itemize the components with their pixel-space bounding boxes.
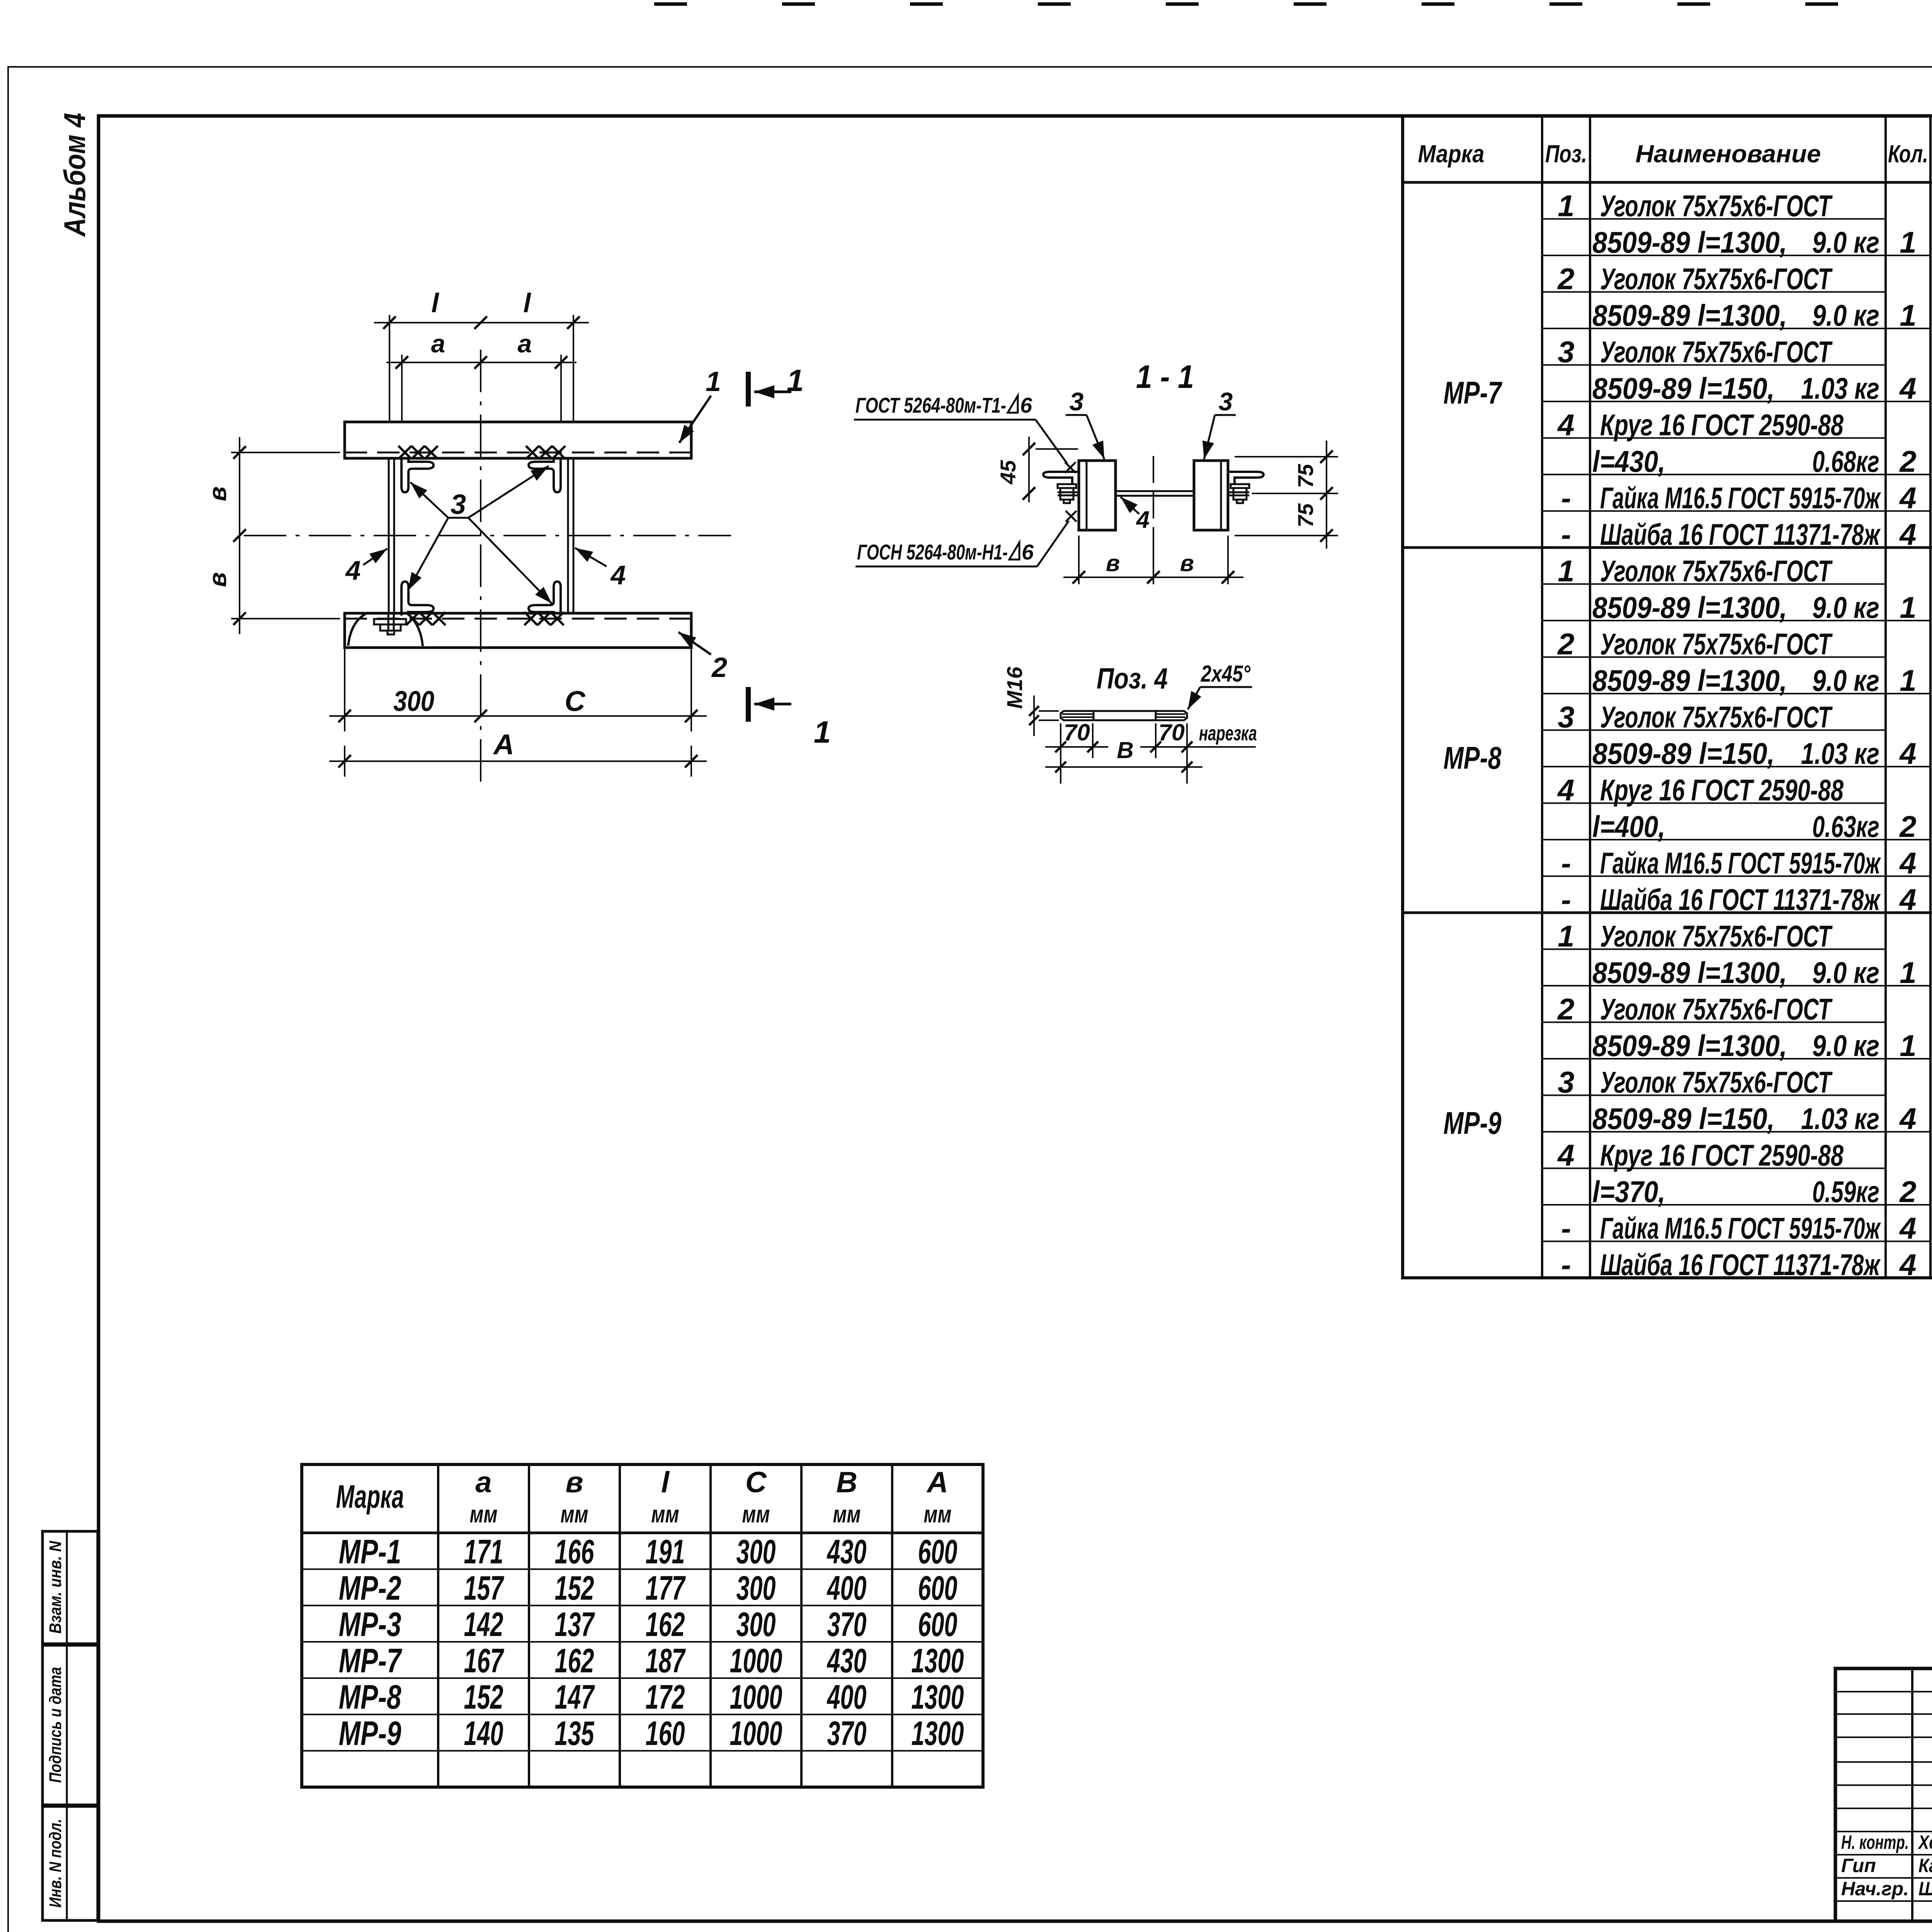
svg-text:Хействер: Хействер: [1918, 1832, 1932, 1853]
svg-text:600: 600: [918, 1532, 957, 1571]
svg-text:Уголок 75х75х6-ГОСТ: Уголок 75х75х6-ГОСТ: [1600, 1065, 1833, 1099]
svg-text:мм: мм: [651, 1501, 679, 1528]
svg-text:4: 4: [1557, 408, 1574, 442]
svg-text:167: 167: [464, 1641, 505, 1680]
section: left nut and washer: [1058, 484, 1076, 488]
svg-text:0.63кг: 0.63кг: [1812, 810, 1879, 844]
svg-text:6: 6: [1022, 540, 1034, 564]
svg-text:в: в: [566, 1466, 583, 1499]
svg-text:Инв. N подл.: Инв. N подл.: [46, 1819, 65, 1908]
svg-text:А: А: [926, 1466, 948, 1499]
svg-text:мм: мм: [470, 1501, 498, 1528]
svg-text:Круг 16 ГОСТ 2590-88: Круг 16 ГОСТ 2590-88: [1600, 773, 1844, 807]
svg-text:нарезка: нарезка: [1199, 722, 1257, 745]
svg-text:в: в: [1106, 550, 1120, 576]
dimension l (left half, top): [389, 315, 390, 422]
svg-text:Гип: Гип: [1841, 1855, 1876, 1876]
main view: weld marks bottom-left: [406, 612, 419, 625]
margin box: Подпись и дата: [43, 1645, 98, 1805]
svg-text:1000: 1000: [730, 1714, 782, 1752]
svg-text:166: 166: [555, 1532, 595, 1571]
svg-text:мм: мм: [833, 1501, 861, 1528]
svg-text:3: 3: [1558, 335, 1574, 369]
svg-text:8509-89 l=1300,: 8509-89 l=1300,: [1592, 663, 1787, 697]
svg-text:Наименование: Наименование: [1636, 140, 1821, 168]
spec table left: block МР-8: [1403, 546, 1932, 549]
svg-text:8509-89 l=1300,: 8509-89 l=1300,: [1592, 1029, 1787, 1063]
spec table left: header: [1541, 116, 1543, 1278]
svg-text:3: 3: [1219, 387, 1233, 416]
svg-text:МР-2: МР-2: [339, 1569, 401, 1607]
svg-text:l: l: [661, 1466, 670, 1499]
svg-text:3: 3: [1070, 387, 1084, 416]
svg-text:МР-3: МР-3: [339, 1605, 401, 1643]
section: centreline: [1153, 456, 1154, 538]
svg-text:Нач.гр.: Нач.гр.: [1841, 1878, 1909, 1900]
main view: weld marks top-left: [398, 446, 412, 459]
svg-text:430: 430: [827, 1532, 866, 1571]
svg-text:1.03 кг: 1.03 кг: [1801, 736, 1879, 770]
svg-text:4: 4: [1899, 481, 1916, 515]
main view: left rod (item 4): [388, 458, 390, 613]
svg-text:Уголок 75х75х6-ГОСТ: Уголок 75х75х6-ГОСТ: [1600, 919, 1833, 953]
svg-text:C: C: [565, 685, 586, 717]
svg-text:1 - 1: 1 - 1: [1136, 359, 1194, 395]
svg-text:1: 1: [814, 715, 831, 749]
svg-text:9.0 кг: 9.0 кг: [1812, 225, 1879, 259]
detail dimension M16: [1039, 710, 1059, 712]
svg-text:4: 4: [1899, 371, 1916, 405]
svg-text:1: 1: [1558, 189, 1574, 223]
svg-text:2: 2: [1899, 1175, 1916, 1209]
section mark 1-1 (top): [746, 372, 751, 406]
main view: angle clip item 3 (top right): [529, 458, 561, 492]
svg-text:Шайба 16 ГОСТ 11371-78ж: Шайба 16 ГОСТ 11371-78ж: [1600, 1248, 1881, 1282]
svg-text:-: -: [1561, 481, 1571, 515]
dimension A (below): [344, 746, 345, 777]
svg-text:2: 2: [1899, 810, 1916, 844]
section dimensions 75 75: [1235, 456, 1338, 457]
svg-text:6: 6: [1020, 393, 1032, 417]
svg-text:1: 1: [1900, 298, 1916, 332]
title block signature grid: [1911, 1668, 1913, 1921]
svg-text:1: 1: [1900, 225, 1916, 259]
main view: vertical centreline: [480, 350, 481, 790]
svg-text:l: l: [523, 288, 531, 318]
svg-text:2: 2: [1557, 627, 1574, 661]
svg-text:Круг 16 ГОСТ 2590-88: Круг 16 ГОСТ 2590-88: [1600, 408, 1844, 442]
svg-text:l=430,: l=430,: [1592, 444, 1665, 478]
svg-text:142: 142: [464, 1605, 503, 1643]
svg-text:1: 1: [706, 366, 721, 397]
svg-text:4: 4: [1899, 736, 1916, 770]
svg-text:1: 1: [787, 363, 804, 398]
svg-text:МР-9: МР-9: [339, 1714, 401, 1752]
svg-text:9.0 кг: 9.0 кг: [1812, 590, 1879, 624]
svg-text:Марка: Марка: [336, 1478, 404, 1515]
svg-text:8509-89 l=1300,: 8509-89 l=1300,: [1592, 956, 1787, 990]
svg-text:МР-9: МР-9: [1444, 1106, 1502, 1141]
main view: bolt assembly on bottom bar: [388, 613, 389, 631]
svg-text:мм: мм: [924, 1501, 952, 1528]
svg-text:a: a: [431, 329, 446, 358]
svg-text:В: В: [1117, 737, 1133, 763]
svg-text:157: 157: [464, 1569, 505, 1607]
svg-text:3: 3: [1558, 700, 1574, 734]
svg-text:Шленова: Шленова: [1918, 1878, 1932, 1900]
svg-text:1: 1: [1900, 590, 1916, 624]
svg-text:МР-8: МР-8: [339, 1678, 401, 1716]
svg-text:Уголок 75х75х6-ГОСТ: Уголок 75х75х6-ГОСТ: [1600, 189, 1833, 223]
svg-text:1: 1: [1558, 919, 1574, 953]
svg-text:C: C: [745, 1466, 767, 1499]
svg-text:Поз. 4: Поз. 4: [1097, 662, 1168, 695]
parameter table: [302, 1464, 983, 1787]
svg-text:600: 600: [918, 1569, 957, 1607]
svg-text:B: B: [836, 1466, 857, 1499]
dimension 300 and C (below): [344, 648, 345, 731]
svg-text:370: 370: [827, 1714, 867, 1752]
main view: right rod (item 4): [567, 458, 569, 613]
svg-text:Уголок 75х75х6-ГОСТ: Уголок 75х75х6-ГОСТ: [1600, 335, 1833, 369]
svg-text:75: 75: [1293, 503, 1318, 527]
svg-text:147: 147: [555, 1678, 595, 1716]
svg-text:75: 75: [1293, 464, 1318, 488]
svg-text:1: 1: [1558, 554, 1574, 588]
svg-text:600: 600: [918, 1605, 957, 1643]
svg-text:1300: 1300: [912, 1678, 964, 1716]
svg-text:l=370,: l=370,: [1592, 1175, 1665, 1209]
main view: bottom bar weld gauge dashed line: [345, 618, 691, 620]
svg-text:3: 3: [451, 489, 466, 520]
svg-text:в: в: [204, 572, 231, 587]
section: right clip block (item 3): [1194, 461, 1228, 530]
svg-text:Гайка М16.5 ГОСТ 5915-70ж: Гайка М16.5 ГОСТ 5915-70ж: [1600, 1211, 1881, 1245]
section dimension в в (bottom): [1078, 536, 1080, 584]
svg-text:370: 370: [827, 1605, 867, 1643]
svg-text:l=400,: l=400,: [1592, 810, 1665, 844]
svg-text:мм: мм: [742, 1501, 770, 1528]
section: left angle flange: [1043, 472, 1079, 484]
svg-text:2: 2: [711, 652, 727, 683]
svg-text:2: 2: [1899, 444, 1916, 478]
svg-text:Уголок 75х75х6-ГОСТ: Уголок 75х75х6-ГОСТ: [1600, 627, 1833, 661]
svg-text:9.0 кг: 9.0 кг: [1812, 1029, 1879, 1063]
dimension a (top): [401, 355, 403, 422]
svg-text:Н. контр.: Н. контр.: [1841, 1832, 1909, 1853]
svg-text:Подпись и дата: Подпись и дата: [46, 1667, 65, 1783]
svg-text:137: 137: [555, 1605, 595, 1643]
svg-text:Гайка М16.5 ГОСТ 5915-70ж: Гайка М16.5 ГОСТ 5915-70ж: [1600, 481, 1881, 515]
svg-text:мм: мм: [561, 1501, 588, 1528]
section dimension 45: [1036, 448, 1078, 450]
svg-text:МР-7: МР-7: [1444, 376, 1503, 411]
svg-text:8509-89 l=150,: 8509-89 l=150,: [1592, 1102, 1775, 1136]
main view: weld marks bottom-right: [524, 612, 537, 625]
spec table left: block МР-9: [1403, 912, 1932, 914]
svg-text:4: 4: [1899, 846, 1916, 880]
svg-text:4: 4: [1899, 1211, 1916, 1245]
svg-text:4: 4: [610, 560, 626, 590]
section mark 1-1 (bottom): [746, 687, 751, 722]
svg-text:70: 70: [1064, 719, 1090, 745]
section: right nut and washer: [1231, 484, 1249, 488]
svg-text:162: 162: [555, 1641, 594, 1680]
svg-text:Уголок 75х75х6-ГОСТ: Уголок 75х75х6-ГОСТ: [1600, 992, 1833, 1026]
svg-text:1300: 1300: [912, 1641, 964, 1680]
svg-text:160: 160: [646, 1714, 685, 1752]
svg-text:1.03 кг: 1.03 кг: [1801, 1102, 1879, 1136]
svg-text:8509-89 l=150,: 8509-89 l=150,: [1592, 736, 1775, 770]
svg-text:Взам. инв. N: Взам. инв. N: [46, 1541, 65, 1634]
svg-text:9.0 кг: 9.0 кг: [1812, 663, 1879, 697]
svg-text:1: 1: [1900, 1029, 1916, 1063]
svg-text:М16: М16: [1002, 667, 1027, 709]
svg-text:4: 4: [1557, 1138, 1574, 1172]
svg-text:191: 191: [646, 1532, 685, 1571]
section: rod item 4: [1116, 490, 1194, 492]
section: right angle flange: [1228, 472, 1264, 484]
svg-text:3: 3: [1558, 1065, 1574, 1099]
main view: angle clip item 3 (bottom left): [401, 582, 434, 616]
detail dimensions 70 / 70 / нарезка: [1060, 723, 1061, 784]
svg-text:152: 152: [555, 1569, 594, 1607]
svg-text:140: 140: [464, 1714, 503, 1752]
main view: top bar weld gauge dashed line: [345, 452, 691, 454]
scan edge dashes (top): [654, 2, 687, 6]
svg-text:1: 1: [1900, 663, 1916, 697]
title block outline: [1835, 1668, 1932, 1921]
svg-text:ГОСТ 5264-80м-Т1-: ГОСТ 5264-80м-Т1-: [855, 393, 1006, 417]
svg-text:0.59кг: 0.59кг: [1812, 1175, 1879, 1209]
svg-text:Уголок 75х75х6-ГОСТ: Уголок 75х75х6-ГОСТ: [1600, 262, 1833, 296]
svg-text:2: 2: [1557, 992, 1574, 1026]
svg-text:МР-7: МР-7: [339, 1641, 403, 1680]
svg-text:4: 4: [1899, 1102, 1916, 1136]
svg-text:8509-89 l=1300,: 8509-89 l=1300,: [1592, 590, 1787, 624]
svg-text:430: 430: [827, 1641, 866, 1680]
svg-text:1000: 1000: [730, 1678, 782, 1716]
svg-text:1300: 1300: [912, 1714, 964, 1752]
section: left clip block (item 3): [1079, 461, 1116, 530]
svg-text:4: 4: [1899, 1248, 1916, 1282]
svg-text:Уголок 75х75х6-ГОСТ: Уголок 75х75х6-ГОСТ: [1600, 700, 1833, 734]
svg-text:0.68кг: 0.68кг: [1812, 444, 1879, 478]
detail: stud rod: [1061, 711, 1187, 720]
svg-text:8509-89 l=1300,: 8509-89 l=1300,: [1592, 225, 1787, 259]
svg-text:400: 400: [827, 1678, 866, 1716]
svg-text:70: 70: [1158, 719, 1185, 745]
margin box: Взам. инв. N: [43, 1531, 98, 1644]
svg-text:171: 171: [464, 1532, 503, 1571]
svg-text:8509-89 l=1300,: 8509-89 l=1300,: [1592, 298, 1787, 332]
svg-text:МР-1: МР-1: [339, 1532, 401, 1571]
svg-text:4: 4: [345, 555, 361, 585]
main view: angle clip item 3 (top left): [401, 458, 434, 492]
svg-text:в: в: [1180, 550, 1194, 576]
svg-text:162: 162: [646, 1605, 685, 1643]
leader to item 1: [679, 396, 711, 443]
svg-text:1000: 1000: [730, 1641, 782, 1680]
svg-text:9.0 кг: 9.0 кг: [1812, 298, 1879, 332]
svg-text:Гайка М16.5 ГОСТ 5915-70ж: Гайка М16.5 ГОСТ 5915-70ж: [1600, 846, 1881, 880]
svg-text:-: -: [1561, 1248, 1571, 1282]
svg-text:Марка: Марка: [1418, 140, 1485, 168]
svg-text:8509-89 l=150,: 8509-89 l=150,: [1592, 371, 1775, 405]
svg-text:в: в: [204, 486, 231, 502]
svg-text:2х45°: 2х45°: [1201, 661, 1251, 687]
svg-text:-: -: [1561, 846, 1571, 880]
main view: top angle bar (item 1): [345, 422, 691, 458]
svg-text:МР-8: МР-8: [1444, 741, 1502, 776]
main view: angle clip item 3 (bottom right): [529, 582, 561, 616]
svg-text:Кол.: Кол.: [1888, 140, 1928, 168]
svg-text:187: 187: [646, 1641, 686, 1680]
svg-text:400: 400: [827, 1569, 866, 1607]
svg-text:4: 4: [1557, 773, 1574, 807]
svg-text:152: 152: [464, 1678, 503, 1716]
svg-text:4: 4: [1136, 507, 1150, 533]
svg-text:Уголок 75х75х6-ГОСТ: Уголок 75х75х6-ГОСТ: [1600, 554, 1833, 588]
svg-text:300: 300: [736, 1605, 776, 1643]
svg-text:177: 177: [646, 1569, 686, 1607]
svg-text:172: 172: [646, 1678, 685, 1716]
svg-text:1: 1: [1900, 956, 1916, 990]
main view: weld marks top-right: [526, 446, 539, 459]
svg-text:2: 2: [1557, 262, 1574, 296]
svg-text:Калугина: Калугина: [1918, 1855, 1932, 1876]
svg-text:ГОСН 5264-80м-Н1-: ГОСН 5264-80м-Н1-: [857, 540, 1008, 564]
margin box: Инв. N подл.: [43, 1806, 98, 1920]
svg-text:Альбом 4: Альбом 4: [58, 113, 92, 237]
svg-text:l: l: [431, 288, 439, 318]
svg-text:Поз.: Поз.: [1545, 140, 1587, 168]
svg-text:300: 300: [736, 1532, 776, 1571]
svg-text:Круг 16 ГОСТ 2590-88: Круг 16 ГОСТ 2590-88: [1600, 1138, 1844, 1172]
svg-text:a: a: [518, 329, 532, 358]
svg-text:a: a: [475, 1466, 492, 1499]
svg-text:135: 135: [555, 1714, 595, 1752]
svg-text:A: A: [493, 728, 514, 760]
svg-text:300: 300: [393, 685, 434, 717]
svg-text:45: 45: [996, 460, 1020, 485]
dimension в (left side): [231, 452, 340, 453]
spec table left: outer border: [1403, 116, 1932, 1278]
main view: horizontal centreline: [244, 535, 731, 536]
svg-text:-: -: [1561, 1211, 1571, 1245]
detail dimension B: [1045, 766, 1202, 768]
main view: bottom angle bar (item 2): [345, 613, 691, 648]
svg-text:300: 300: [736, 1569, 776, 1607]
svg-text:1.03 кг: 1.03 кг: [1801, 371, 1879, 405]
leader to item 2: [679, 632, 711, 655]
svg-text:9.0 кг: 9.0 кг: [1812, 956, 1879, 990]
